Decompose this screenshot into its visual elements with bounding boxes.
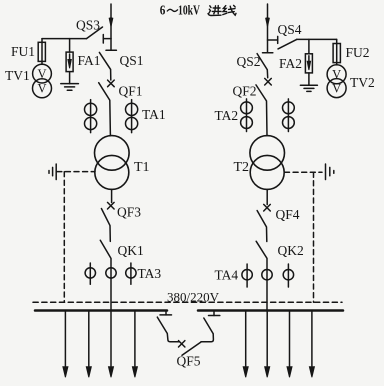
current transformer TA3 middle [106,268,116,278]
breaker QF4 blade [257,211,267,242]
svg-text:QF5: QF5 [177,354,201,369]
wire: FA2 drop [308,39,310,53]
QS1 contact bar [106,49,116,51]
title 6~10kV [160,2,200,17]
breaker QF1 blade [99,83,111,136]
arrester FA1 [66,52,73,72]
transformer T1 [95,136,130,171]
wire: left incoming line [110,4,112,50]
label TA2 [215,108,239,123]
wire: QS3 stub to main line [103,38,111,40]
svg-text:QF1: QF1 [119,84,143,99]
svg-text:TA3: TA3 [138,266,162,281]
QF5 right blade [201,318,213,342]
current transformer TA3 left [89,263,91,284]
svg-text:QK2: QK2 [278,243,304,258]
QS2 contact bar [263,52,273,54]
svg-text:V: V [37,67,46,81]
svg-text:FU2: FU2 [346,45,370,60]
svg-text:QF2: QF2 [233,84,257,99]
wire: T2 to QF4 [266,189,268,204]
dashed bus line [33,301,342,303]
disconnector QS3 blade [87,27,103,39]
switch QK2 [256,241,267,310]
breaker cross QS2/QF2 [265,78,272,85]
svg-text:QS2: QS2 [237,54,261,69]
current transformer TA4 middle [262,270,272,280]
svg-text:T2: T2 [234,160,250,175]
label QF3 [117,205,141,220]
svg-text:FA2: FA2 [279,56,302,71]
label QK1 [118,243,144,258]
svg-text:T1: T1 [134,160,150,175]
QF5 left contact bar [160,314,172,316]
ground (T1 left) [55,164,57,180]
label TA3 [138,266,162,281]
wire: FU1 drop [41,39,43,43]
current transformer TA1 left [90,100,92,133]
fuse FU1 [41,42,43,64]
transformer T2 [250,136,285,171]
label FU1 [11,44,35,59]
label FU2 [346,45,370,60]
QF5 tie blade [182,342,201,355]
dashed wire T2 to ground [285,171,323,173]
outgoing feeder R4 [311,311,313,367]
outgoing feeder L1 [64,311,66,367]
svg-text:V: V [332,68,341,82]
disconnector QS4 blade [278,39,297,49]
QS3 contact bar [102,35,104,44]
breaker cross QF3 [108,202,115,209]
disconnector QS1 [99,52,110,80]
label QS2 [237,54,261,69]
svg-text:QF4: QF4 [276,207,300,222]
title hanzi jin [208,6,221,16]
voltage transformer TV1 [33,64,52,83]
voltage transformer TV2 [327,65,346,84]
wire: QS4 stub [268,39,278,41]
incoming arrow (left) [109,18,113,27]
svg-text:10kV: 10kV [178,2,200,17]
current transformer TA2 right [287,99,289,132]
svg-text:TA2: TA2 [215,108,239,123]
breaker cross QF4 [264,204,271,211]
breaker QF3 blade [101,209,110,242]
wire: T1 to QF3 [111,189,113,202]
outgoing feeder R3 [289,311,291,367]
label QF1 [119,84,143,99]
QF5 left blade [157,317,179,342]
ground (T2 right) [325,164,327,180]
svg-text:QK1: QK1 [118,243,144,258]
label QF5 [177,354,201,369]
svg-text:V: V [332,81,341,95]
outgoing feeder R1 [245,311,247,367]
label FA1 [78,53,101,68]
busbar right section [198,309,343,312]
dashed boundary right vertical [313,172,315,302]
ground (FA2) [300,84,317,86]
svg-text:QS4: QS4 [278,22,302,37]
svg-text:TV1: TV1 [5,68,30,83]
wire: FU2 drop [336,39,338,43]
switch QK1 [100,240,111,310]
wire: QS4 branch horizontal [297,38,337,40]
busbar left section [35,309,167,312]
svg-text:QF3: QF3 [117,205,141,220]
breaker QF2 blade [256,85,267,136]
wire: right incoming line [267,4,269,53]
current transformer TA2 left [246,99,248,132]
svg-text:FU1: FU1 [11,44,35,59]
svg-text:QS3: QS3 [76,18,100,33]
fuse FU2 [336,44,338,65]
dashed wire T1 to ground [57,171,95,173]
label TV1 [5,68,30,83]
wire: QS3 branch horizontal [42,38,87,40]
label TA4 [215,268,239,283]
current transformer TA3 right [130,263,132,284]
label TA1 [142,107,166,122]
svg-text:TA4: TA4 [215,268,239,283]
QF5 left stub [165,312,167,315]
title hanzi xian [223,5,236,15]
svg-text:FA1: FA1 [78,53,101,68]
outgoing feeder L3 [110,311,112,367]
current transformer TA1 right [131,100,133,133]
svg-text:TV2: TV2 [350,75,375,90]
current transformer TA4 right [287,264,289,287]
current transformer TA4 left [246,264,248,287]
label FA2 [279,56,302,71]
outgoing feeder R2 [266,311,268,367]
wire: FA1 drop [69,39,71,53]
QF5 right contact bar [209,315,220,317]
label QK2 [278,243,304,258]
svg-text:V: V [37,82,46,96]
arrester FA2 [305,54,312,73]
breaker cross QF5 [179,341,185,347]
label QS3 [76,18,100,33]
QS4 contact bar [277,36,279,43]
label T1 [134,160,150,175]
wire: FA2 to ground [308,73,310,85]
title tilde [167,9,177,11]
dashed boundary left vertical [63,172,65,303]
QF5 right stub [213,312,215,316]
wire: FA1 to ground [69,72,71,84]
label T2 [234,160,250,175]
outgoing feeder L4 [134,311,136,367]
disconnector QS2 [257,54,268,78]
incoming arrow (right) [266,18,270,27]
ground (FA1) [61,83,79,85]
label TV2 [350,75,375,90]
breaker cross QS1/QF1 [108,80,115,87]
label QS1 [120,53,144,68]
label 380/220V [167,290,220,305]
outgoing feeder L2 [88,311,90,367]
svg-text:6: 6 [160,2,166,17]
label QF2 [233,84,257,99]
svg-text:QS1: QS1 [120,53,144,68]
label QS4 [278,22,302,37]
label QF4 [276,207,300,222]
svg-text:TA1: TA1 [142,107,166,122]
